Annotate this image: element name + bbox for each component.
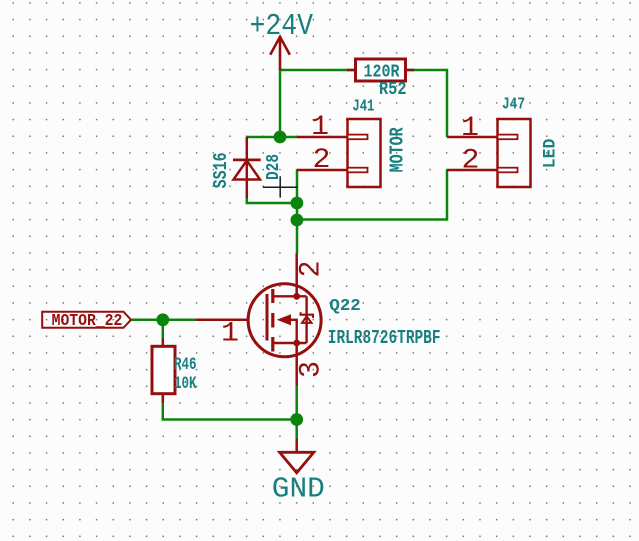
wire: J41 pin 2 down to MOSFET drain	[296, 170, 299, 254]
cursor crosshair	[263, 176, 298, 197]
D28 anode triangle	[234, 161, 261, 180]
J47 contact 2	[498, 168, 518, 173]
resistor R46	[152, 339, 197, 404]
wire: MOTOR_22 label to gate pin	[131, 319, 196, 322]
svg-text:2: 2	[313, 145, 331, 176]
svg-text:2: 2	[462, 146, 480, 177]
J47 pin 1 lead	[447, 136, 498, 139]
source connection	[273, 342, 307, 344]
svg-text:10K: 10K	[174, 374, 197, 394]
wire: R46 bottom to ground node	[163, 403, 297, 420]
svg-text:SS16: SS16	[210, 152, 232, 188]
J41 body	[348, 119, 381, 187]
svg-text:1: 1	[461, 113, 479, 144]
diode D28	[210, 137, 284, 198]
wire: MOSFET source down to ground node and GND symbol	[295, 386, 298, 439]
GND triangle	[280, 452, 314, 473]
R52 body	[356, 59, 406, 81]
wire: gate node down to R46 top	[162, 320, 165, 339]
wire: J47 pin 2 down and left to node	[297, 170, 447, 220]
arrow into channel	[277, 314, 291, 325]
R46 pin stubs	[162, 339, 165, 404]
svg-text:LED: LED	[540, 139, 560, 169]
ground symbol	[272, 439, 325, 506]
svg-text:MOTOR: MOTOR	[386, 127, 408, 172]
svg-text:J41: J41	[352, 97, 374, 116]
gate bar	[266, 294, 269, 341]
svg-text:MOTOR_22: MOTOR_22	[52, 312, 123, 331]
junction node source / R46 / GND	[290, 413, 303, 426]
wire: +24V corner to R52 to right branch down to J47 pin 1	[280, 70, 447, 137]
svg-text:1: 1	[221, 318, 239, 349]
MOTOR_22 flag outline	[42, 312, 131, 328]
J47 body	[498, 119, 531, 187]
D28 vertical leads	[246, 137, 249, 198]
svg-text:2: 2	[295, 261, 329, 278]
svg-text:Q22: Q22	[329, 297, 360, 316]
connector J47	[447, 96, 560, 188]
internal junction dots	[293, 293, 300, 300]
R46 body	[152, 346, 175, 393]
svg-text:J47: J47	[502, 96, 525, 115]
svg-text:R46: R46	[174, 355, 197, 375]
J47 contact 1	[498, 135, 518, 140]
Q22 source lead pin 3	[295, 343, 298, 386]
connector J41	[297, 97, 408, 187]
J41 pin 2 lead	[297, 169, 348, 172]
wire: node at J41 pin1 level, diode top to J41 pin 1	[247, 136, 297, 139]
supply symbol +24V	[270, 37, 290, 71]
drain connection	[273, 295, 307, 297]
Q22 body circle	[248, 284, 321, 357]
J41 contact 2	[348, 168, 368, 173]
resistor R52	[347, 59, 414, 100]
junction node at +24V / J41 pin1 / diode top	[274, 131, 287, 144]
Q22 gate lead pin 1	[196, 319, 248, 322]
wire: diode bottom to node	[247, 198, 297, 203]
junction node J47 branch	[291, 214, 304, 227]
+24V arrow head	[270, 37, 290, 55]
D28 cathode bar	[233, 158, 261, 161]
body diode symbol	[301, 312, 313, 318]
svg-text:1: 1	[311, 112, 329, 143]
body diode line	[305, 296, 307, 343]
R52 pin stubs	[347, 69, 414, 72]
GND stem	[295, 439, 298, 453]
svg-text:R52: R52	[379, 80, 407, 100]
svg-text:+24V: +24V	[250, 10, 314, 44]
svg-text:IRLR8726TRPBF: IRLR8726TRPBF	[328, 327, 441, 349]
junction node gate / R46	[156, 313, 169, 326]
junction node diode bottom	[291, 197, 304, 210]
Q22 drain lead pin 2	[295, 254, 298, 297]
net label MOTOR_22	[42, 312, 131, 331]
+24V stem	[279, 37, 282, 71]
channel segments	[271, 289, 274, 352]
transistor Q22	[196, 254, 441, 386]
J41 pin 1 lead	[297, 136, 348, 139]
J47 pin 2 lead	[447, 169, 498, 172]
svg-text:GND: GND	[272, 473, 325, 506]
svg-text:3: 3	[295, 361, 329, 378]
J41 contact 1	[348, 135, 368, 140]
svg-text:D28: D28	[263, 154, 284, 180]
